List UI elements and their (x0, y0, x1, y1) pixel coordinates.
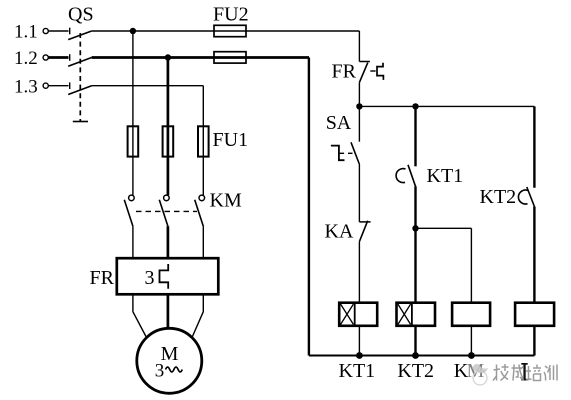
wire branch1 vertical (132, 31, 134, 195)
coil KT2 body (397, 303, 436, 326)
FR contact actuator dash (370, 70, 375, 72)
FR heater element symbol (160, 264, 169, 289)
wire branch1 KM to FR box (132, 226, 134, 258)
wire control line from 1.1 down to FR contact (358, 31, 360, 62)
wire motor lead left (133, 294, 147, 337)
terminal circle line 1.3 (43, 83, 48, 88)
wire branch2 KM to FR box (bold) (167, 226, 170, 258)
wire branch3 vertical (202, 86, 204, 196)
wire branch2 vertical (bold) (167, 58, 170, 196)
terminal circle line 1.2 (43, 55, 48, 60)
svg-text:KT2: KT2 (480, 186, 517, 208)
wire branch C vertical to KM coil (470, 228, 472, 302)
coil KA body (515, 303, 554, 326)
wire L3 terminal to QS (48, 85, 68, 87)
wire SA to KA (358, 164, 360, 222)
svg-text:KT1: KT1 (427, 165, 464, 187)
node dot rail coil KT2 (412, 352, 419, 359)
KA contact blade (360, 221, 368, 242)
coil KT1 X mark (341, 304, 354, 324)
wire line 1.1 through and after FU2 (214, 30, 359, 32)
KT2 delayed contact arc (518, 190, 528, 204)
svg-text:FR: FR (332, 61, 357, 83)
watermark logo bird (472, 364, 488, 373)
motor M circle (137, 328, 202, 393)
SA operator latch (331, 146, 345, 161)
svg-text:KT1: KT1 (339, 360, 376, 382)
coil KT1 divider (354, 303, 356, 326)
QS pole 2 fixed contact tick (69, 54, 71, 61)
svg-text:KA: KA (325, 221, 354, 243)
thermal relay FR box (117, 258, 219, 294)
node dot rail coil KM (468, 352, 475, 359)
wire motor lead middle (bold) (167, 294, 170, 328)
wire motor lead right (192, 294, 203, 337)
KT1 delayed contact arc (396, 169, 405, 183)
svg-text:KM: KM (210, 190, 242, 212)
coil KT2 X mark (398, 304, 411, 324)
svg-text:3: 3 (145, 267, 155, 289)
node dot branch B / branch C (412, 225, 418, 231)
svg-text:FU2: FU2 (213, 4, 249, 26)
node dot rail coil KT1 (356, 352, 363, 359)
coil KT2 divider (411, 303, 413, 326)
watermark logo circle (473, 371, 487, 385)
wire node to SA contact (358, 106, 360, 141)
contactor KM main contact 2 blade (159, 200, 168, 226)
wire L2 terminal to QS (bold) (48, 56, 68, 59)
coil KM body (452, 303, 490, 326)
fuse FU1 pole2 body (163, 126, 174, 156)
watermark text 技 (493, 364, 509, 381)
node dot line1.1 / branch1 (130, 28, 136, 34)
svg-text:KT2: KT2 (397, 360, 434, 382)
QS pole 3 fixed contact tick (69, 82, 71, 89)
watermark text 成 (512, 365, 524, 381)
wire line 1.3 QS to branch 3 corner (92, 85, 204, 87)
wire coil KM to rail (470, 326, 472, 356)
contactor KM linkage dashed line (136, 210, 197, 212)
FR NC contact blade (360, 63, 368, 83)
node dot branch A top (356, 103, 362, 109)
wire line 1.1 QS to FU2 (92, 30, 214, 32)
contactor KM main contact 3 circle (199, 195, 205, 201)
fuse FU2b body (214, 52, 246, 63)
svg-text:FU1: FU1 (213, 129, 249, 151)
bottom control rail (309, 355, 535, 357)
fuse FU2a body (214, 25, 246, 36)
fuse FU1 pole1 body (128, 126, 139, 156)
svg-text:1.1: 1.1 (14, 21, 38, 42)
left control rail (bold) (308, 58, 310, 356)
contactor KM main contact 1 blade (124, 200, 133, 226)
terminal circle line 1.1 (43, 28, 48, 33)
wire KT2 contact to coil (bold) (533, 207, 535, 303)
wire coil KT1 to rail (358, 326, 360, 356)
SA contact blade (351, 142, 359, 164)
contactor KM main contact 2 circle (164, 195, 170, 201)
fuse FU1 pole3 body (198, 126, 209, 156)
KT2 contact blade (527, 187, 535, 207)
FR contact actuator hook (377, 63, 383, 80)
wire KT1 contact to node dot (bold) (414, 186, 416, 302)
QS pole 1 fixed contact tick (69, 28, 71, 35)
wire coil KA to rail (bold) (533, 326, 535, 356)
svg-text:FR: FR (90, 267, 115, 289)
svg-text:3: 3 (155, 360, 165, 381)
watermark text 培 (526, 365, 541, 381)
wire FR contact to node row (358, 82, 360, 106)
wire branch3 KM to FR box (202, 226, 204, 258)
svg-text:SA: SA (326, 112, 352, 134)
coil KT1 body (339, 303, 377, 326)
QS pole 3 blade (68, 86, 91, 95)
wire L1 terminal to QS (48, 30, 68, 32)
contactor KM main contact 3 blade (195, 200, 204, 226)
coil label KA stem visible through watermark (523, 363, 525, 381)
svg-text:1.2: 1.2 (14, 48, 38, 69)
contactor KM main contact 1 circle (129, 195, 135, 201)
node row horizontal wire (359, 105, 534, 107)
wire line 1.2 QS to FU2 (bold) (92, 56, 309, 59)
wire branch B node to KT1 contact (bold) (414, 106, 416, 166)
KA contact tick (359, 221, 370, 223)
QS handle bar (73, 121, 88, 123)
wire KT2 branch from node row (bold) (533, 106, 535, 187)
motor tilde wave (166, 367, 183, 372)
node dot line1.2 / branch2 (165, 54, 171, 60)
QS pole 2 blade (68, 58, 91, 67)
wire KA to coil KT1 (358, 241, 360, 302)
svg-text:QS: QS (68, 4, 94, 26)
wire branch C horizontal (416, 227, 472, 229)
FR NC contact tick (359, 61, 370, 63)
SA linkage dash 2 (348, 152, 353, 154)
SA linkage dash 1 (340, 152, 345, 154)
svg-text:1.3: 1.3 (14, 76, 38, 97)
QS linkage dashed line (79, 33, 81, 121)
QS pole 1 blade (68, 31, 91, 40)
watermark text 训 (544, 365, 557, 381)
KT1 contact blade (408, 165, 416, 187)
wire coil KT2 to rail (bold) (414, 326, 416, 356)
node dot branch B top (412, 103, 418, 109)
